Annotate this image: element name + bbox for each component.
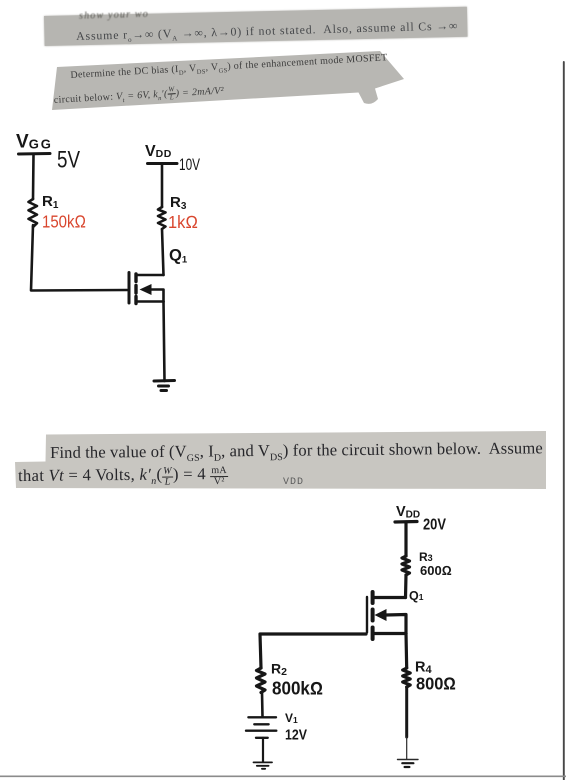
transistor Q1 drain stub (circuit 2) [373,596,406,599]
label Q1 [169,247,188,266]
value label 600Ω [420,563,452,578]
value label 800kΩ [272,679,323,699]
problem text banner 1 [44,7,468,46]
transistor Q1 source stub (circuit 2) [373,632,406,635]
wire R3 to drain (circuit 2) [404,575,408,598]
label R1 [42,193,59,211]
svg-text:Q1: Q1 [169,247,188,266]
label R2 [271,661,287,679]
wire R4 to ground [405,687,408,737]
wire VDD to R3 (circuit 2) [404,522,407,556]
wire battery to ground [262,738,264,762]
svg-text:R1: R1 [42,193,59,211]
node VDD label (circuit 2) [396,504,420,521]
value label 1kΩ (red) [168,212,198,232]
ground (R4) [398,759,419,761]
value label 20V [423,517,447,534]
value label 150kΩ (red) [42,212,86,232]
VDD supply rail bar (circuit 2) [395,520,417,524]
wire VGG to R1 [32,155,35,199]
svg-text:R3: R3 [419,550,433,564]
wire VDD to R3 [161,164,164,207]
node VDD (grey label under banner 3) [283,477,304,488]
label V1 [285,711,298,725]
node VGG label [16,132,53,153]
wire R3 to drain [162,229,164,275]
svg-text:VDD: VDD [145,143,172,160]
battery V1 [246,717,276,738]
transistor Q1 gate bar (circuit 2) [366,597,368,633]
svg-text:800kΩ: 800kΩ [272,679,323,699]
svg-text:Q1: Q1 [409,589,424,603]
node VDD label [145,143,172,160]
value label 12V [285,728,307,744]
wire source to R4 [404,634,408,669]
svg-text:800Ω: 800Ω [416,674,456,694]
svg-text:V1: V1 [285,711,298,725]
svg-text:VDD: VDD [396,504,420,521]
ground (battery) [254,762,273,768]
svg-text:600Ω: 600Ω [420,563,452,578]
wire R2 to battery [261,692,264,717]
label R3 (circuit 2) [419,550,433,564]
resistor R1 [29,199,38,227]
transistor Q1 gate bar [128,273,131,304]
wire R1 to gate [31,225,127,291]
problem text banner 3 [0,425,566,505]
svg-text:20V: 20V [423,517,447,534]
resistor R3 (circuit 2) [402,556,410,575]
resistor R2 [257,668,266,693]
ground (circuit 1) [154,381,175,391]
label R4 [415,660,432,677]
resistor R3 [158,207,166,229]
wire source to ground [164,302,165,382]
transistor Q1 source stub [136,300,164,303]
value label 10V [179,156,200,174]
transistor Q1 channel (dashed) [134,274,137,304]
svg-text:1kΩ: 1kΩ [168,212,198,232]
wire gate lead (circuit 2) [260,634,366,668]
svg-text:12V: 12V [285,728,307,744]
VGG supply rail bar [19,152,51,156]
svg-text:5V: 5V [57,147,80,174]
svg-text:10V: 10V [179,156,200,174]
label R3 [170,194,187,212]
resistor R4 [403,668,411,687]
label Q1 (circuit 2) [409,589,424,603]
problem text banner 2 [0,0,566,130]
svg-text:VGG: VGG [16,132,53,153]
value label 800Ω [416,674,456,694]
transistor Q1 body arrow (circuit 2) [386,615,406,634]
VDD supply rail bar [148,162,178,165]
wire thin to ground [406,737,408,759]
transistor Q1 drain stub [136,274,164,277]
svg-text:R2: R2 [271,661,287,679]
transistor Q1 channel dashes (circuit 2) [371,592,375,639]
svg-text:150kΩ: 150kΩ [42,212,86,232]
svg-text:R3: R3 [170,194,187,212]
value label 5V [57,147,80,174]
transistor Q1 body arrow [151,290,164,302]
